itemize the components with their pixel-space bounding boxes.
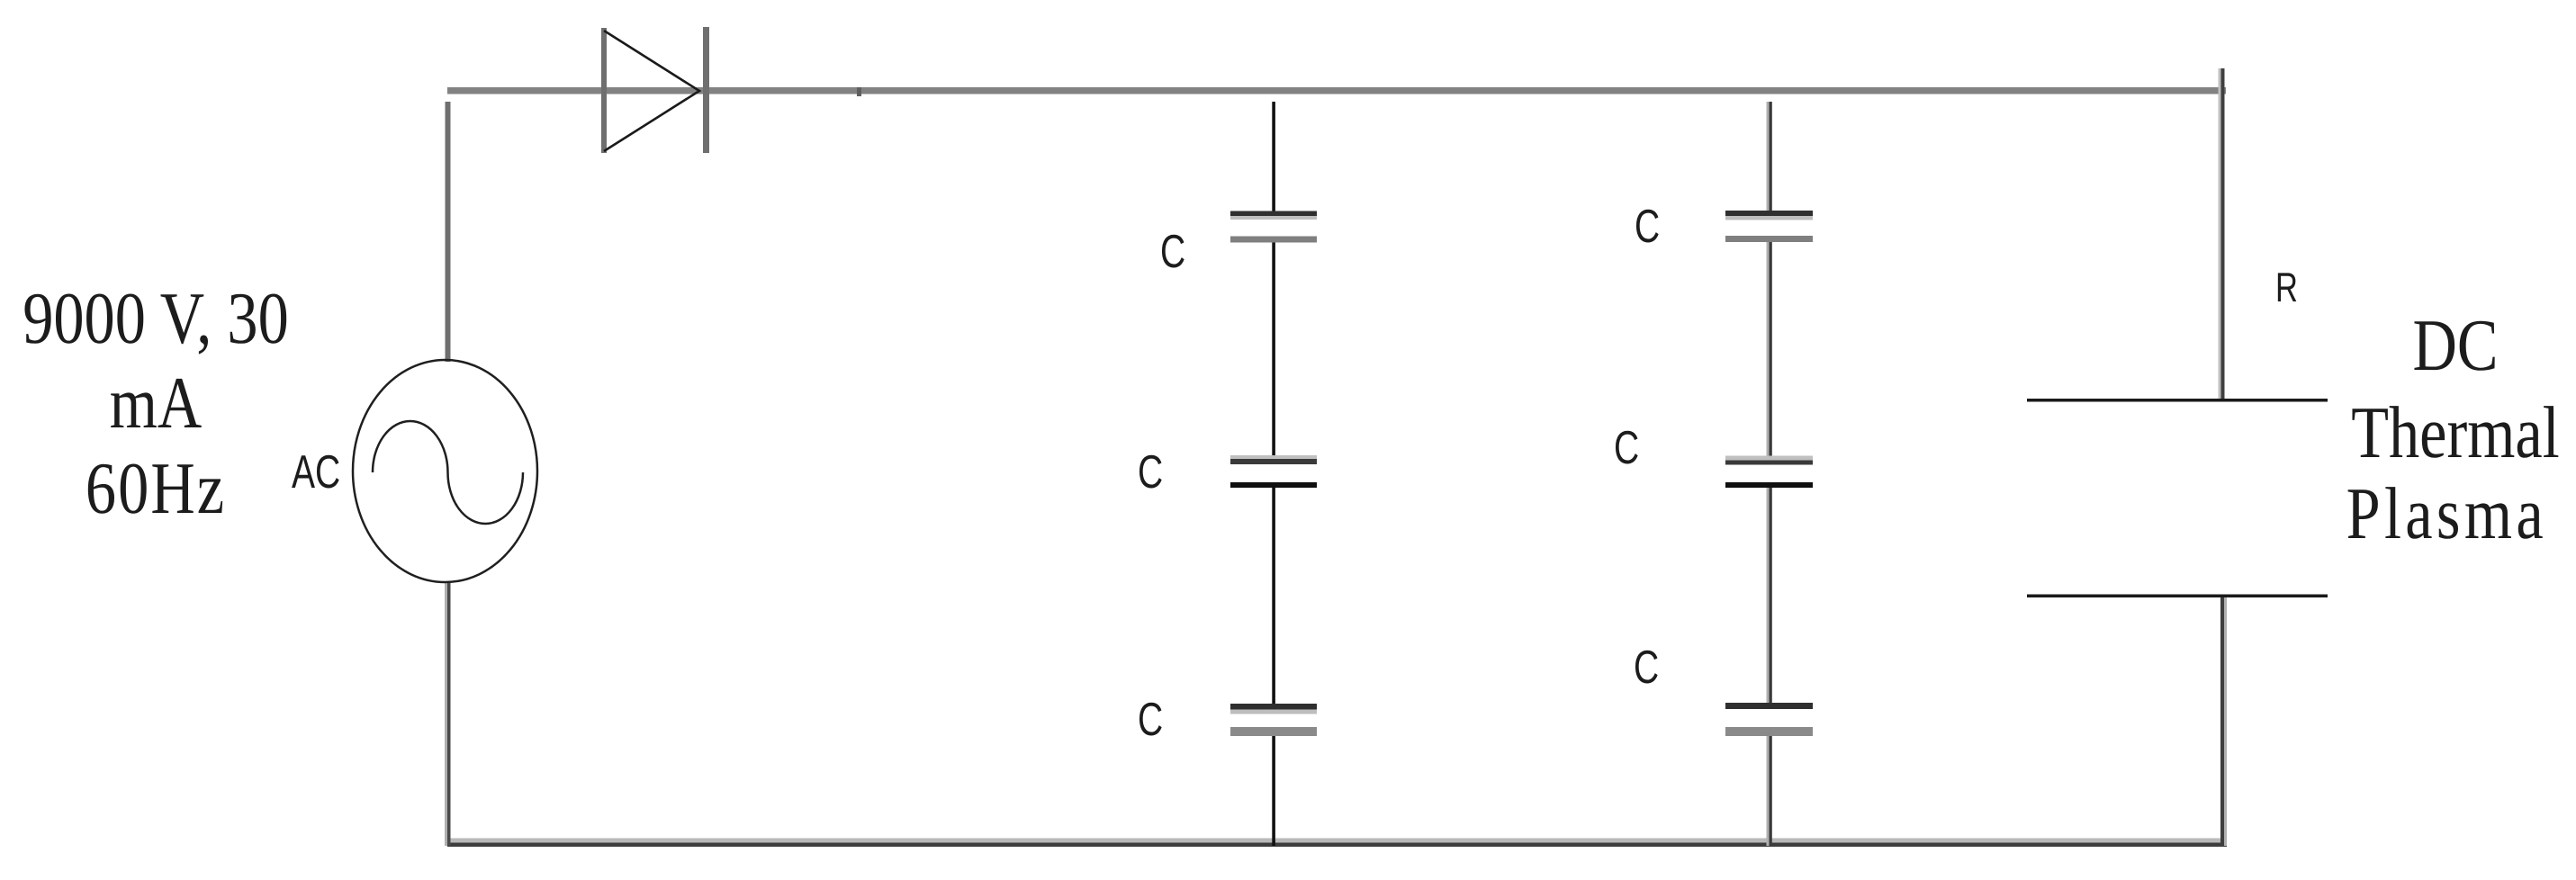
- svg-text:C: C: [1138, 694, 1163, 746]
- svg-text:C: C: [1635, 201, 1660, 253]
- svg-text:C: C: [1160, 226, 1185, 278]
- svg-text:Thermal: Thermal: [2351, 391, 2559, 473]
- svg-text:Plasma: Plasma: [2346, 472, 2547, 554]
- svg-text:C: C: [1614, 422, 1639, 474]
- svg-text:mA: mA: [110, 362, 202, 444]
- svg-text:DC: DC: [2413, 304, 2499, 386]
- svg-text:9000 V, 30: 9000 V, 30: [23, 277, 289, 359]
- svg-text:60Hz: 60Hz: [86, 447, 226, 529]
- svg-text:AC: AC: [292, 446, 340, 498]
- svg-text:C: C: [1138, 446, 1163, 498]
- svg-text:C: C: [1634, 642, 1659, 694]
- svg-text:R: R: [2275, 264, 2298, 310]
